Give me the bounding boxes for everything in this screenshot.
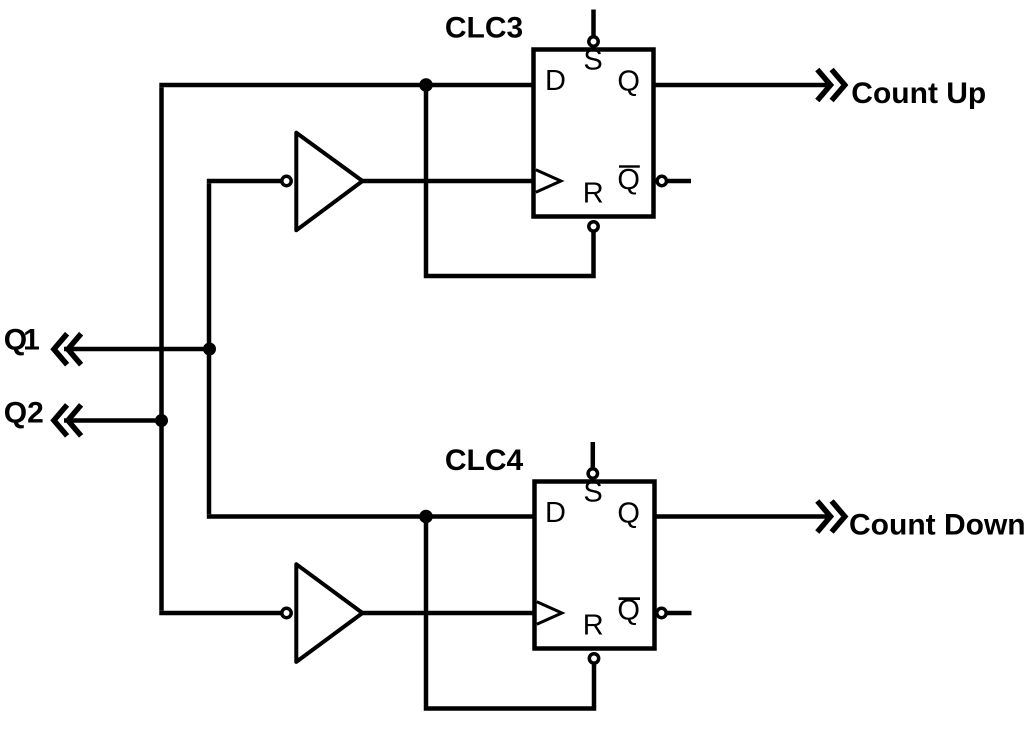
svg-text:S: S bbox=[583, 45, 602, 77]
svg-text:CLC4: CLC4 bbox=[445, 444, 524, 477]
wire lower inverter input bbox=[162, 611, 283, 613]
svg-text:Q: Q bbox=[617, 497, 640, 529]
wire lower inverter output to CLC4 clock bbox=[361, 611, 535, 616]
svg-text:S: S bbox=[583, 477, 602, 509]
port Q2 chevron arrow bbox=[54, 405, 81, 436]
node Q1 junction bbox=[203, 343, 216, 356]
flip-flop CLC4 R bubble bbox=[589, 654, 598, 663]
inverter U2 input bubble bbox=[282, 608, 291, 617]
inverter U2 triangle bbox=[296, 564, 362, 662]
node CLC3 D junction bbox=[419, 78, 433, 92]
svg-text:Q: Q bbox=[617, 164, 640, 196]
node Q2 junction bbox=[155, 414, 168, 427]
flip-flop CLC4 S bubble bbox=[588, 469, 597, 478]
flip-flop CLC4 Qbar bubble bbox=[657, 608, 666, 617]
wire CLC4 D input bbox=[207, 514, 535, 519]
svg-text:D: D bbox=[545, 65, 566, 97]
pin label CLC4 Qbar overline bbox=[619, 597, 641, 600]
svg-text:Q1: Q1 bbox=[4, 324, 40, 357]
wire Q2 input horizontal bbox=[64, 418, 162, 423]
svg-text:Count Down: Count Down bbox=[849, 509, 1026, 542]
wire CLC3 Qbar stub bbox=[654, 179, 692, 184]
wire CLC3 Q output to Count Up bbox=[654, 83, 830, 88]
svg-text:Q: Q bbox=[617, 66, 640, 98]
flip-flop CLC3 body bbox=[534, 50, 654, 217]
flip-flop CLC4 clock triangle bbox=[537, 602, 562, 624]
wire left vertical bus (Q2 net) bbox=[159, 87, 164, 611]
wire right vertical bus (Q1 net) bbox=[207, 183, 212, 514]
svg-text:Count Up: Count Up bbox=[851, 77, 986, 110]
wire CLC3 D input bbox=[159, 83, 533, 88]
svg-text:Q2: Q2 bbox=[4, 397, 44, 430]
inverter U1 triangle bbox=[296, 133, 362, 231]
node CLC4 D junction bbox=[419, 510, 433, 524]
wire Q1 input horizontal bbox=[64, 347, 209, 352]
flip-flop CLC4 body bbox=[535, 482, 655, 649]
port Q1 chevron arrow bbox=[54, 334, 81, 365]
svg-text:CLC3: CLC3 bbox=[445, 12, 523, 45]
flip-flop CLC3 S bubble bbox=[589, 37, 598, 46]
svg-text:D: D bbox=[545, 497, 566, 529]
inverter U1 input bubble bbox=[282, 176, 291, 185]
wire CLC3 feedback D-node to R pin bbox=[426, 85, 594, 276]
svg-text:R: R bbox=[583, 610, 604, 642]
svg-text:R: R bbox=[583, 178, 604, 210]
port Count Down chevron arrow bbox=[817, 501, 845, 532]
flip-flop CLC3 clock triangle bbox=[536, 170, 561, 192]
wire CLC4 Q output to Count Down bbox=[655, 514, 830, 519]
wire CLC4 S stub bbox=[591, 442, 596, 468]
wire upper inverter output to CLC3 clock bbox=[361, 179, 534, 184]
flip-flop CLC3 Qbar bubble bbox=[657, 176, 666, 185]
flip-flop CLC3 R bubble bbox=[589, 222, 598, 231]
wire upper inverter input bbox=[207, 179, 282, 184]
wire CLC4 Qbar stub bbox=[655, 611, 692, 616]
wire CLC3 S stub bbox=[591, 10, 596, 37]
wire CLC4 feedback D-node to R pin bbox=[426, 517, 594, 709]
port Count Up chevron arrow bbox=[817, 70, 845, 101]
pin label CLC3 Qbar overline bbox=[619, 165, 640, 167]
